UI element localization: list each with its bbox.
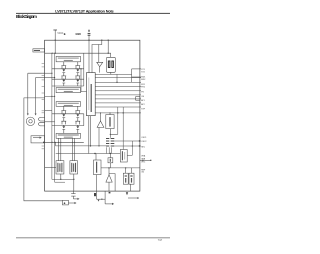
svg-text:PS: PS [141, 92, 144, 94]
svg-text:STP: STP [141, 108, 145, 110]
svg-text:GD: GD [141, 172, 144, 174]
svg-text:SEL: SEL [141, 146, 145, 148]
svg-text:OE: OE [141, 96, 144, 98]
svg-text:VRA: VRA [141, 154, 146, 157]
svg-text:ST2: ST2 [141, 71, 144, 73]
svg-text:AT2: AT2 [141, 103, 144, 106]
svg-text:AT1: AT1 [141, 99, 144, 102]
svg-text:OSC2: OSC2 [141, 141, 146, 143]
svg-text:MD2: MD2 [141, 79, 145, 81]
svg-text:LV8712T/LV8713T Application No: LV8712T/LV8713T Application Note [55, 9, 114, 13]
svg-text:Block Diagram: Block Diagram [16, 14, 37, 19]
svg-text:7/17: 7/17 [158, 240, 163, 242]
svg-text:VRC: VRC [141, 161, 146, 163]
svg-text:OSC1: OSC1 [141, 137, 146, 139]
svg-text:FR2: FR2 [141, 86, 145, 88]
svg-text:GND: GND [76, 33, 82, 36]
svg-text:VCC1: VCC1 [57, 33, 64, 35]
